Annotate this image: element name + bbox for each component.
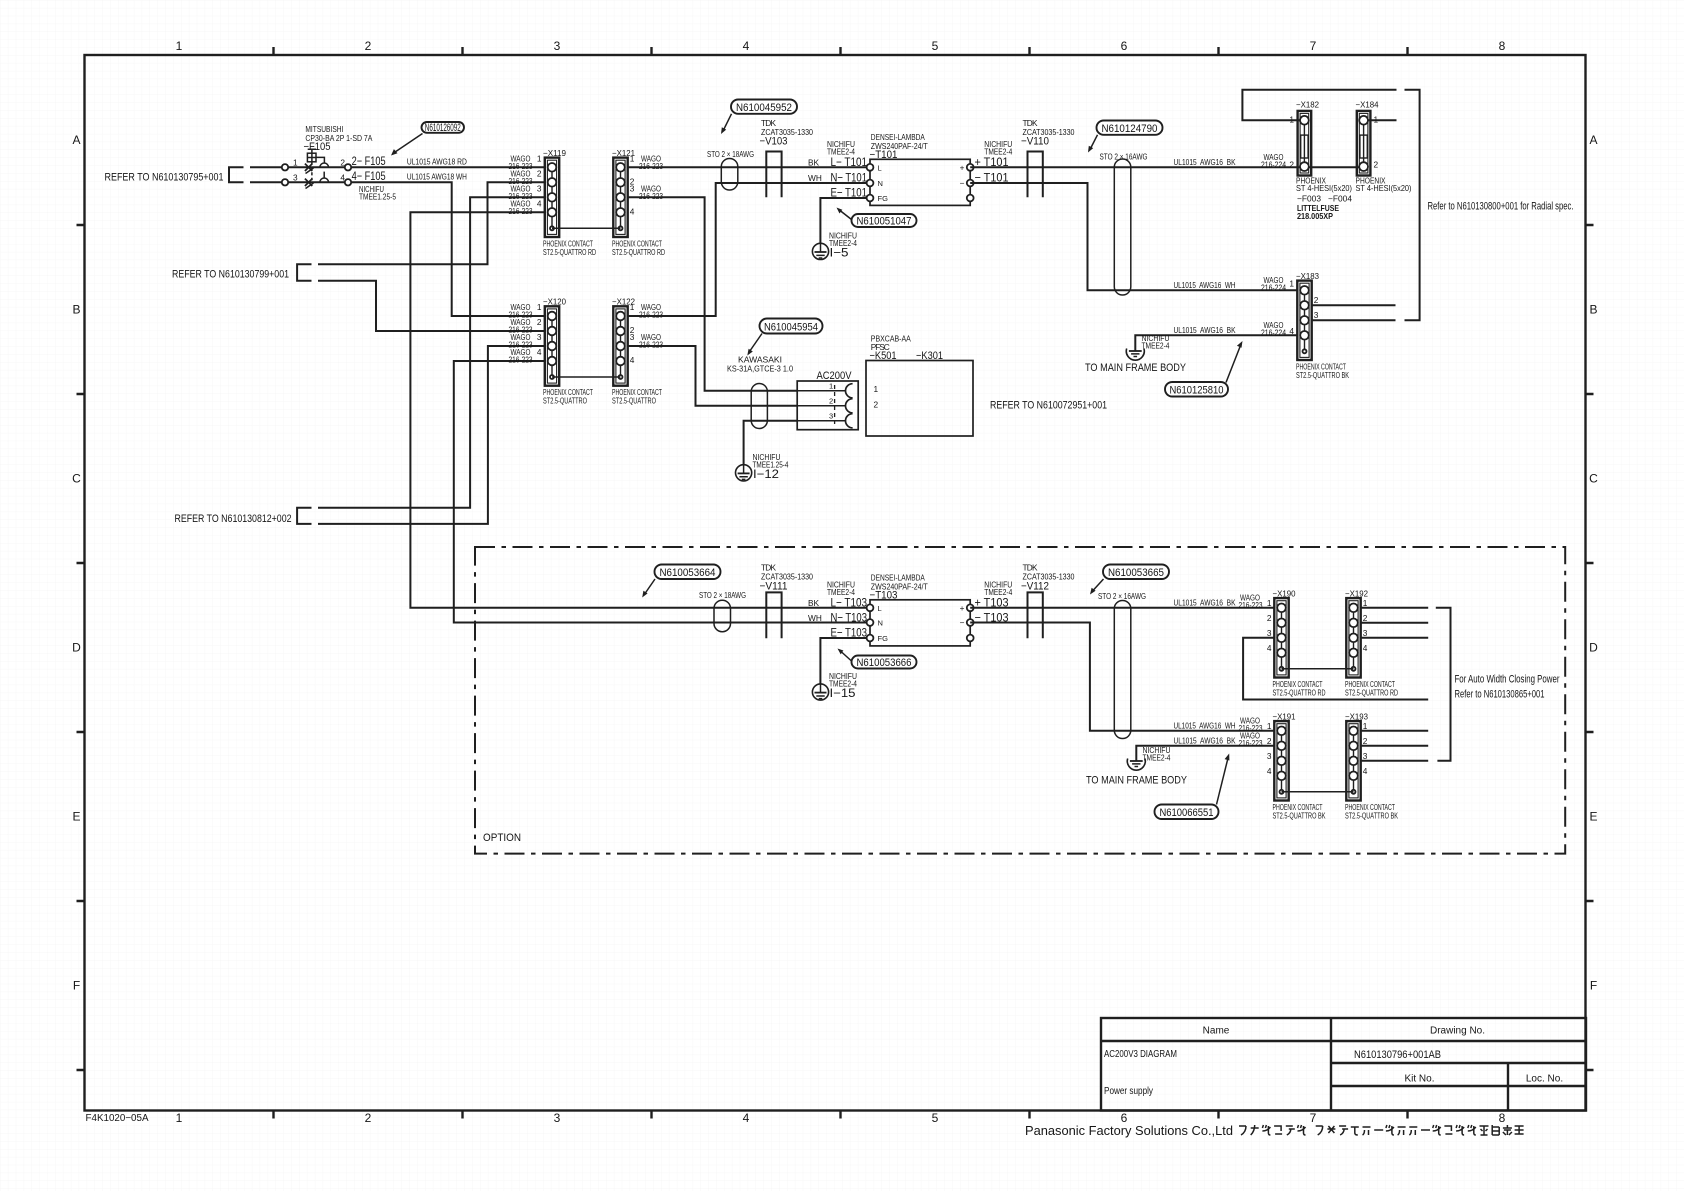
wire X183 pin3 stub <box>1312 319 1396 321</box>
wire X122 pin1 up to T101 N <box>628 183 867 316</box>
svg-text:4: 4 <box>537 347 542 357</box>
svg-text:TMEE1.25-5: TMEE1.25-5 <box>359 192 396 202</box>
wire AC200V plug pin3 to earth 1-12 <box>744 421 798 465</box>
svg-text:−X120: −X120 <box>543 297 566 307</box>
svg-text:BK: BK <box>808 158 820 168</box>
svg-text:5: 5 <box>932 39 939 53</box>
svg-text:2: 2 <box>365 39 372 53</box>
fuse holder X182 <box>1289 100 1352 193</box>
svg-text:2: 2 <box>1363 613 1368 623</box>
svg-text:2: 2 <box>537 317 542 327</box>
svg-text:216-223: 216-223 <box>639 340 663 350</box>
svg-text:2: 2 <box>537 169 542 179</box>
svg-text:2: 2 <box>365 1111 372 1125</box>
svg-text:N610130796+001AB: N610130796+001AB <box>1354 1049 1441 1061</box>
svg-text:TO MAIN FRAME BODY: TO MAIN FRAME BODY <box>1086 775 1188 787</box>
balloon N610053664 <box>642 565 720 598</box>
link X191-X193 bottom jumper <box>1282 791 1354 793</box>
wire +T103 to X190 pin1 <box>970 607 1274 609</box>
svg-text:TMEE2-4: TMEE2-4 <box>984 587 1012 597</box>
svg-text:N610125810: N610125810 <box>1170 385 1224 397</box>
svg-text:N610045954: N610045954 <box>764 321 818 333</box>
wire through breaker pole 1 <box>288 166 345 168</box>
svg-text:Refer to N610130865+001: Refer to N610130865+001 <box>1455 689 1545 701</box>
wire from refer799 top arm to X119 pin2 <box>318 182 545 264</box>
svg-text:ST2.5-QUATTRO BK: ST2.5-QUATTRO BK <box>1296 370 1349 380</box>
svg-text:N610124790: N610124790 <box>1102 123 1158 135</box>
svg-text:FG: FG <box>878 634 889 643</box>
svg-text:−X183: −X183 <box>1296 271 1319 281</box>
svg-text:1: 1 <box>630 302 635 312</box>
svg-text:−X119: −X119 <box>543 148 566 158</box>
svg-text:−: − <box>960 178 965 188</box>
svg-text:2: 2 <box>1363 736 1368 746</box>
ferrite core V110 <box>1021 118 1075 197</box>
footer japanese text (drawn strokes) <box>1239 1125 1524 1135</box>
svg-text:−: − <box>960 618 965 628</box>
svg-text:I−15: I−15 <box>830 686 856 700</box>
svg-text:4: 4 <box>1267 766 1272 776</box>
svg-text:−X190: −X190 <box>1273 589 1296 599</box>
svg-text:N: N <box>878 619 883 628</box>
wire from refer799 bottom arm to X120 pin2 <box>318 281 545 331</box>
svg-text:REFER TO N610130799+001: REFER TO N610130799+001 <box>172 269 289 281</box>
WAGO 216-223 label (X190 pin1) <box>1239 592 1263 610</box>
wire X192 pin2 stub <box>1361 622 1429 624</box>
svg-text:L− T103: L− T103 <box>831 596 868 610</box>
fuse holder X184 <box>1356 100 1412 193</box>
ferrite core V112 <box>1021 563 1075 639</box>
wire +T101 to X182/X184 pin2 <box>970 166 1363 168</box>
svg-text:−F004: −F004 <box>1328 194 1352 204</box>
svg-text:216-223: 216-223 <box>639 310 663 320</box>
cable marker STO 2x16AWG (top) <box>1100 152 1148 296</box>
svg-text:3: 3 <box>829 411 833 420</box>
svg-text:E: E <box>72 810 80 824</box>
svg-text:3: 3 <box>293 173 298 183</box>
svg-text:Refer to N610130800+001 for Ra: Refer to N610130800+001 for Radial spec. <box>1428 201 1574 213</box>
breaker F105 pin 1 terminal <box>282 164 288 170</box>
svg-text:UL1015 AWG18 RD: UL1015 AWG18 RD <box>407 156 467 166</box>
X122 WAGO 216-223 labels <box>639 302 663 350</box>
svg-text:3: 3 <box>554 1111 561 1125</box>
terminal label NICHIFU TMEE2-4 (T101 input) <box>827 139 855 157</box>
svg-text:C: C <box>72 472 81 486</box>
svg-text:2− F105: 2− F105 <box>352 154 386 168</box>
svg-text:L− T101: L− T101 <box>831 155 868 169</box>
frame row labels left <box>72 133 81 993</box>
svg-text:−F003: −F003 <box>1297 194 1321 204</box>
svg-text:2: 2 <box>1267 613 1272 623</box>
power supply T101 <box>867 132 974 205</box>
svg-text:2: 2 <box>1267 736 1272 746</box>
svg-text:TMEE2-4: TMEE2-4 <box>827 587 855 597</box>
node: REFER TO N610130812+002 <box>175 508 312 525</box>
svg-text:3: 3 <box>1314 310 1319 320</box>
svg-text:1: 1 <box>537 154 542 164</box>
earth terminal 1-15 <box>812 671 857 700</box>
connector X119 <box>537 148 596 257</box>
svg-text:216-224: 216-224 <box>1261 159 1286 169</box>
svg-text:−X184: −X184 <box>1356 100 1379 110</box>
balloon N610066551 <box>1155 754 1230 820</box>
svg-text:−V111: −V111 <box>760 581 788 593</box>
svg-text:−X191: −X191 <box>1273 712 1296 722</box>
svg-text:L: L <box>878 604 882 613</box>
wire E-T101 to earth 1-5 <box>820 198 866 244</box>
connector X193 <box>1345 712 1398 821</box>
wire X184 pin1 stub right <box>1368 119 1397 121</box>
link X119-X121 bottom jumper <box>552 227 621 229</box>
wire X120 pin4 down to option N-T103 <box>454 361 870 623</box>
svg-text:−V103: −V103 <box>760 136 788 148</box>
svg-text:TO MAIN FRAME BODY: TO MAIN FRAME BODY <box>1085 362 1187 374</box>
svg-text:3: 3 <box>1267 751 1272 761</box>
svg-text:4: 4 <box>1363 766 1368 776</box>
wire X193 pin2 stub <box>1361 745 1429 747</box>
svg-text:4: 4 <box>630 206 635 216</box>
connector X121 <box>612 148 665 257</box>
svg-text:1: 1 <box>1267 598 1272 608</box>
wire X122 pin3 down to AC200V plug pin2 <box>628 346 798 406</box>
frame zone ticks top <box>274 47 1408 55</box>
svg-text:7: 7 <box>1310 1111 1317 1125</box>
wire X190 pin3 loop down right <box>1243 638 1428 700</box>
svg-text:2: 2 <box>1374 159 1379 169</box>
svg-text:216-223: 216-223 <box>509 206 533 216</box>
svg-text:F: F <box>73 979 80 993</box>
svg-text:N610051047: N610051047 <box>857 216 912 228</box>
title block texts <box>1104 1026 1563 1098</box>
svg-text:KS-31A,GTCE-3 1.0: KS-31A,GTCE-3 1.0 <box>727 364 793 374</box>
svg-text:D: D <box>72 641 81 655</box>
AC200V plug connector <box>797 370 858 430</box>
terminal label NICHIFU TMEE1.25-5 <box>359 184 396 202</box>
svg-text:ST2.5-QUATTRO: ST2.5-QUATTRO <box>543 396 587 406</box>
svg-text:3: 3 <box>630 184 635 194</box>
svg-text:218.005XP: 218.005XP <box>1297 211 1333 221</box>
title block <box>1101 1018 1586 1111</box>
svg-text:N− T103: N− T103 <box>831 611 868 625</box>
svg-text:WH: WH <box>808 613 822 623</box>
balloon N610045954 <box>747 319 822 356</box>
wire X182 pin1 loop to top <box>1242 90 1396 121</box>
svg-text:3: 3 <box>630 332 635 342</box>
cable marker STO 2x18AWG (top) <box>707 149 754 190</box>
svg-text:I−12: I−12 <box>753 467 779 481</box>
connector X122 <box>612 297 662 406</box>
frame column labels top <box>176 39 1506 53</box>
wire from refer812 bottom arm to X120 pin3 <box>318 346 545 524</box>
svg-text:1: 1 <box>537 302 542 312</box>
wire -T101 down and to X183 pin1 <box>970 183 1297 290</box>
node: REFER TO N610130795+001 <box>105 167 244 183</box>
svg-text:1: 1 <box>1267 721 1272 731</box>
OPTION dashed boundary <box>475 547 1565 854</box>
svg-text:2: 2 <box>1289 159 1294 169</box>
svg-text:UL1015 AWG16 BK: UL1015 AWG16 BK <box>1174 157 1236 167</box>
svg-text:1: 1 <box>176 1111 183 1125</box>
svg-text:REFER TO N610072951+001: REFER TO N610072951+001 <box>990 400 1107 412</box>
svg-text:4: 4 <box>630 355 635 365</box>
svg-text:Kit No.: Kit No. <box>1404 1074 1434 1085</box>
svg-text:L: L <box>878 164 882 173</box>
radial spec outline corner (right) <box>1405 90 1420 320</box>
svg-text:+: + <box>960 163 965 173</box>
svg-text:N610053664: N610053664 <box>660 567 716 579</box>
svg-text:216-223: 216-223 <box>639 161 663 171</box>
svg-text:−F105: −F105 <box>304 141 331 153</box>
svg-text:1: 1 <box>874 384 879 394</box>
cable marker STO 2x18AWG (option) <box>699 590 746 632</box>
circuit breaker F105 symbol <box>304 124 373 189</box>
fuse labels F003/F004 LITTELFUSE <box>1297 194 1352 222</box>
wire X192 pin1 stub <box>1361 607 1429 609</box>
wire E-T103 to earth 1-15 <box>820 638 866 684</box>
wire through breaker pole 2 <box>288 181 345 183</box>
svg-text:4: 4 <box>1267 643 1272 653</box>
svg-text:2: 2 <box>874 400 879 410</box>
svg-text:ST2.5-QUATTRO RD: ST2.5-QUATTRO RD <box>1345 688 1398 698</box>
wire X121 pin1 to T101 L <box>628 166 867 168</box>
svg-text:N610045952: N610045952 <box>736 102 792 114</box>
svg-text:B: B <box>1589 303 1597 317</box>
svg-text:N610066551: N610066551 <box>1160 807 1214 819</box>
svg-text:TMEE2-4: TMEE2-4 <box>984 146 1012 156</box>
svg-text:Panasonic Factory Solutions Co: Panasonic Factory Solutions Co.,Ltd <box>1025 1124 1233 1138</box>
wire X183 pin4 to chassis ground <box>1135 335 1297 351</box>
svg-text:216-223: 216-223 <box>1239 738 1263 748</box>
svg-text:N610126092: N610126092 <box>425 122 461 134</box>
terminal label NICHIFU TMEE2-4 (T103 input) <box>827 579 855 597</box>
svg-text:4: 4 <box>1363 643 1368 653</box>
ferrite core V111 <box>760 563 814 639</box>
drawing border frame <box>85 55 1586 1111</box>
svg-text:STO 2 × 16AWG: STO 2 × 16AWG <box>1100 152 1148 162</box>
cable marker KAWASAKI KS-31A (oval) <box>727 355 793 429</box>
svg-text:−V110: −V110 <box>1021 136 1049 148</box>
wire -T103 down to X191 pin1 <box>970 623 1274 731</box>
svg-text:2: 2 <box>1314 295 1319 305</box>
svg-text:7: 7 <box>1310 39 1317 53</box>
svg-text:−V112: −V112 <box>1021 581 1049 593</box>
svg-text:ST2.5-QUATTRO BK: ST2.5-QUATTRO BK <box>1345 811 1398 821</box>
svg-text:For Auto Width Closing Power: For Auto Width Closing Power <box>1455 674 1560 686</box>
frame column labels bottom <box>176 1111 1506 1125</box>
svg-text:FG: FG <box>878 194 889 203</box>
svg-text:6: 6 <box>1121 39 1128 53</box>
WAGO 216-224 label (X182 pin2) <box>1261 152 1286 170</box>
svg-text:4: 4 <box>743 39 750 53</box>
svg-text:ST2.5-QUATTRO RD: ST2.5-QUATTRO RD <box>543 247 596 257</box>
WAGO 216-224 label (X183 pin1) <box>1261 275 1286 293</box>
WAGO 216-224 label (X183 pin4) <box>1261 320 1286 338</box>
svg-text:A: A <box>1589 133 1597 147</box>
svg-text:ST2.5-QUATTRO BK: ST2.5-QUATTRO BK <box>1273 811 1326 821</box>
svg-text:216-223: 216-223 <box>1239 600 1263 610</box>
frame zone ticks left <box>77 225 85 1070</box>
breaker F105 pin 4 terminal <box>345 179 351 185</box>
connector X120 <box>537 297 593 406</box>
svg-text:1: 1 <box>1289 279 1294 289</box>
earth terminal 1-12 <box>736 452 789 481</box>
svg-text:C: C <box>1589 472 1598 486</box>
svg-text:UL1015 AWG16 BK: UL1015 AWG16 BK <box>1174 735 1236 745</box>
svg-text:D: D <box>1589 641 1598 655</box>
svg-text:216-223: 216-223 <box>509 355 533 365</box>
svg-text:3: 3 <box>1267 628 1272 638</box>
relay box K501/K301 <box>866 334 973 437</box>
svg-text:F: F <box>1590 979 1597 993</box>
frame zone ticks bottom <box>274 1111 1408 1119</box>
svg-text:3: 3 <box>1363 751 1368 761</box>
svg-text:1: 1 <box>176 39 183 53</box>
svg-text:Drawing No.: Drawing No. <box>1430 1026 1485 1037</box>
svg-text:STO 2 × 18AWG: STO 2 × 18AWG <box>699 590 746 600</box>
wire L from refer bracket to breaker <box>250 166 282 168</box>
svg-text:+: + <box>960 603 965 613</box>
chassis ground (top) TO MAIN FRAME BODY <box>1085 333 1187 374</box>
wire UL1015 AWG18 WH to X120 pin1 <box>351 171 545 316</box>
svg-text:OPTION: OPTION <box>483 832 521 844</box>
power supply T103 <box>867 573 974 646</box>
svg-text:REFER TO N610130812+002: REFER TO N610130812+002 <box>175 513 292 525</box>
svg-text:N− T101: N− T101 <box>831 171 868 185</box>
svg-text:3: 3 <box>554 39 561 53</box>
svg-text:AC200V3 DIAGRAM: AC200V3 DIAGRAM <box>1104 1049 1177 1060</box>
svg-text:2: 2 <box>829 396 833 405</box>
svg-text:1: 1 <box>1363 598 1368 608</box>
svg-text:STO 2 × 16AWG: STO 2 × 16AWG <box>1098 591 1146 601</box>
breaker F105 pin 3 terminal <box>282 179 288 185</box>
balloon N610051047 <box>837 208 917 228</box>
wire X119 pin4 down to option L-T103 <box>410 212 870 608</box>
svg-text:2: 2 <box>340 158 345 168</box>
svg-text:Loc. No.: Loc. No. <box>1526 1074 1563 1085</box>
svg-text:ST2.5-QUATTRO RD: ST2.5-QUATTRO RD <box>612 247 665 257</box>
svg-text:1: 1 <box>630 154 635 164</box>
balloon N610124790 <box>1088 121 1163 153</box>
svg-text:N: N <box>878 179 883 188</box>
svg-text:B: B <box>72 303 80 317</box>
svg-text:3: 3 <box>537 332 542 342</box>
connector X191 <box>1267 712 1326 821</box>
auto width bracket <box>1436 608 1451 761</box>
wire X191 pin2 to chassis ground <box>1136 746 1274 761</box>
svg-text:ST 4-HESI(5x20): ST 4-HESI(5x20) <box>1356 183 1412 193</box>
svg-text:I−5: I−5 <box>830 246 849 260</box>
svg-text:ST2.5-QUATTRO: ST2.5-QUATTRO <box>612 396 656 406</box>
wire N from refer bracket to breaker <box>250 181 282 183</box>
svg-text:3: 3 <box>1363 628 1368 638</box>
svg-text:A: A <box>72 133 80 147</box>
svg-text:REFER TO N610130795+001: REFER TO N610130795+001 <box>105 172 224 184</box>
terminal label NICHIFU TMEE2-4 (T101 output) <box>984 139 1012 157</box>
svg-text:Power supply: Power supply <box>1104 1086 1153 1097</box>
connector X192 <box>1345 589 1398 698</box>
connector X183 <box>1289 271 1349 380</box>
svg-text:1: 1 <box>829 381 833 390</box>
terminal label NICHIFU TMEE2-4 (T103 output) <box>984 579 1012 597</box>
wire UL1015 AWG18 RD to X119 pin1 <box>351 156 545 167</box>
svg-text:1: 1 <box>1363 721 1368 731</box>
svg-text:UL1015 AWG16 WH: UL1015 AWG16 WH <box>1174 280 1236 290</box>
svg-text:ST 4-HESI(5x20): ST 4-HESI(5x20) <box>1296 183 1352 193</box>
X119 WAGO 216-223 labels <box>509 153 533 216</box>
svg-text:1: 1 <box>293 158 298 168</box>
svg-text:ST2.5-QUATTRO RD: ST2.5-QUATTRO RD <box>1273 688 1326 698</box>
svg-text:216-223: 216-223 <box>639 191 663 201</box>
WAGO 216-223 label (X191 pin2) <box>1239 730 1263 748</box>
cable marker STO 2x16AWG (option) <box>1098 591 1146 739</box>
svg-text:UL1015 AWG16 BK: UL1015 AWG16 BK <box>1174 325 1236 335</box>
balloon N610126092 <box>391 122 464 156</box>
svg-text:N610053665: N610053665 <box>1108 567 1164 579</box>
wire X183 pin2 stub <box>1312 304 1396 306</box>
svg-text:F4K1020−05A: F4K1020−05A <box>86 1113 149 1124</box>
svg-text:Name: Name <box>1203 1026 1230 1037</box>
breaker F105 pin 2 terminal <box>345 164 351 170</box>
node: REFER TO N610130799+001 <box>172 264 312 280</box>
svg-text:E: E <box>1589 810 1597 824</box>
wire X192 pin3 stub <box>1361 637 1429 639</box>
svg-text:4: 4 <box>537 199 542 209</box>
link X120-X122 bottom jumper <box>552 376 621 378</box>
X120 WAGO 216-223 labels <box>509 302 533 365</box>
frame row labels right <box>1589 133 1598 993</box>
svg-text:STO 2 × 18AWG: STO 2 × 18AWG <box>707 149 754 159</box>
svg-text:5: 5 <box>932 1111 939 1125</box>
note For Auto Width Closing Power <box>1455 674 1560 701</box>
balloon N610053665 <box>1090 565 1169 595</box>
svg-text:TMEE2-4: TMEE2-4 <box>1143 753 1171 763</box>
svg-text:TMEE2-4: TMEE2-4 <box>827 146 855 156</box>
svg-text:216-224: 216-224 <box>1261 282 1286 292</box>
svg-text:N610053666: N610053666 <box>857 657 912 669</box>
svg-text:216-224: 216-224 <box>1261 327 1286 337</box>
balloon N610053666 <box>838 649 917 670</box>
svg-text:−X182: −X182 <box>1296 100 1319 110</box>
wire X121 pin3 down to AC200V plug pin1 <box>628 197 798 390</box>
svg-text:4− F105: 4− F105 <box>352 169 386 183</box>
svg-text:8: 8 <box>1499 39 1506 53</box>
svg-text:6: 6 <box>1121 1111 1128 1125</box>
link X190-X192 bottom jumper <box>1282 668 1354 670</box>
svg-text:4: 4 <box>743 1111 750 1125</box>
balloon N610125810 <box>1165 341 1243 397</box>
wire X193 pin1 stub <box>1361 730 1429 732</box>
svg-text:TMEE2-4: TMEE2-4 <box>1142 341 1170 351</box>
svg-text:BK: BK <box>808 598 820 608</box>
svg-text:WH: WH <box>808 173 822 183</box>
frame zone ticks right <box>1586 225 1594 1070</box>
chassis ground (option) TO MAIN FRAME BODY <box>1086 745 1188 787</box>
svg-text:4: 4 <box>340 173 345 183</box>
earth terminal 1-5 <box>812 231 857 260</box>
connector X190 <box>1267 589 1326 698</box>
balloon N610045952 <box>721 100 797 135</box>
wire X193 pin3 stub <box>1361 760 1429 762</box>
svg-text:UL1015 AWG18 WH: UL1015 AWG18 WH <box>407 171 467 181</box>
WAGO 216-223 label (X191 pin1) <box>1239 715 1263 733</box>
svg-text:UL1015 AWG16 BK: UL1015 AWG16 BK <box>1174 597 1236 607</box>
svg-text:8: 8 <box>1499 1111 1506 1125</box>
svg-text:UL1015 AWG16 WH: UL1015 AWG16 WH <box>1174 720 1236 730</box>
wire from refer812 top arm to X119 pin3 <box>318 197 545 507</box>
X121 WAGO 216-223 labels <box>639 153 663 201</box>
svg-text:3: 3 <box>537 184 542 194</box>
ferrite core V103 <box>760 118 814 197</box>
